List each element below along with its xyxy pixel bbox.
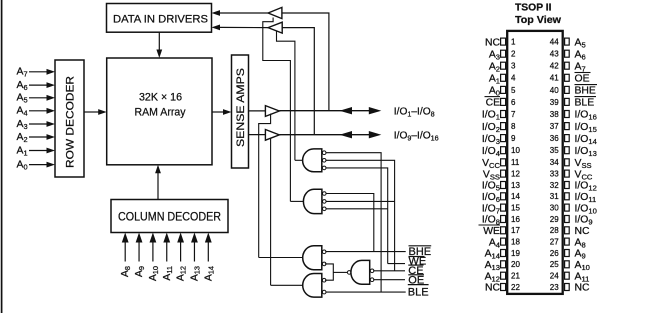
pin 32 I/O12	[550, 181, 597, 193]
svg-text:34: 34	[550, 158, 559, 167]
svg-text:I/O15: I/O15	[575, 122, 597, 134]
svg-text:10: 10	[511, 146, 520, 155]
wire U5 output bracket	[333, 271, 347, 273]
wire DATA IN DRIVERS to RAM array	[158, 32, 160, 51]
svg-text:I/O4: I/O4	[482, 146, 500, 158]
svg-text:I/O14: I/O14	[575, 134, 597, 146]
svg-text:20: 20	[511, 260, 520, 269]
wire U2 input WE	[326, 208, 388, 210]
pin 39 BLE	[550, 97, 596, 109]
svg-text:A0: A0	[17, 160, 28, 172]
svg-text:COLUMN DECODER: COLUMN DECODER	[118, 212, 221, 224]
pin 2 A3	[489, 49, 516, 61]
svg-text:VCC: VCC	[575, 169, 593, 181]
svg-text:22: 22	[511, 283, 520, 292]
svg-text:39: 39	[550, 98, 559, 107]
pin 9 I/O3	[482, 134, 516, 146]
svg-text:TSOP II: TSOP II	[515, 3, 552, 14]
svg-text:WE: WE	[483, 226, 500, 237]
pin 15 I/O7	[482, 203, 521, 215]
node A10 input	[148, 266, 160, 281]
wire output buffer upper enable	[259, 114, 271, 258]
svg-text:A4: A4	[489, 237, 500, 249]
pin 10 I/O4	[482, 146, 521, 158]
node A12 input	[176, 266, 188, 281]
wire buffer to DATA IN DRIVERS lower	[220, 26, 268, 28]
pin 29 I/O9	[550, 215, 593, 227]
pin 16 I/O8	[482, 215, 521, 227]
wire U2 input BHE	[326, 194, 374, 252]
svg-text:29: 29	[550, 215, 559, 224]
pin 24 A11	[550, 271, 590, 283]
pin 18 A4	[489, 237, 521, 249]
svg-text:43: 43	[550, 50, 559, 59]
pin 7 I/O1	[482, 110, 516, 122]
svg-text:1: 1	[511, 38, 516, 47]
pin 38 I/O16	[550, 110, 597, 122]
svg-text:36: 36	[550, 134, 559, 143]
pin 35 I/O13	[550, 146, 597, 158]
block SENSE AMPS box	[232, 55, 249, 168]
svg-text:I/O1–I/O8: I/O1–I/O8	[394, 106, 435, 118]
svg-text:I/O9–I/O16: I/O9–I/O16	[394, 130, 439, 142]
gate output-enable byte-low U4	[303, 274, 322, 298]
wire output buffer lower enable	[270, 138, 272, 285]
wire U1 input CE	[325, 160, 394, 270]
svg-text:21: 21	[511, 272, 520, 281]
svg-text:CE: CE	[486, 98, 501, 109]
wire SENSE AMPS to output buffer upper	[249, 110, 266, 112]
wire U1 input BLE	[325, 153, 381, 292]
block ROW DECODER box	[55, 60, 84, 177]
svg-text:7: 7	[511, 110, 516, 119]
svg-text:18: 18	[511, 238, 520, 247]
svg-text:23: 23	[550, 283, 559, 292]
pin 25 A10	[550, 260, 590, 272]
node A8 input	[120, 266, 132, 277]
wire U4 output	[271, 284, 303, 286]
svg-text:I/O3: I/O3	[482, 134, 500, 146]
svg-text:A13: A13	[189, 266, 201, 281]
svg-text:28: 28	[550, 226, 559, 235]
svg-text:Top View: Top View	[515, 15, 562, 26]
svg-text:A2: A2	[17, 132, 28, 144]
wire RAM array to SENSE AMPS	[212, 111, 225, 113]
svg-text:38: 38	[550, 110, 559, 119]
svg-text:26: 26	[550, 249, 559, 258]
wire ROW DECODER to RAM array	[84, 111, 99, 113]
svg-text:A14: A14	[485, 249, 500, 261]
svg-text:I/O13: I/O13	[575, 146, 597, 158]
buffer output upper	[265, 106, 279, 117]
svg-text:A12: A12	[176, 266, 188, 281]
pin 37 I/O15	[550, 122, 597, 134]
svg-text:I/O1: I/O1	[482, 110, 500, 122]
gate read-enable U5	[351, 260, 370, 284]
wire U1 input WE	[325, 168, 387, 264]
svg-text:32K × 16: 32K × 16	[139, 91, 182, 103]
svg-text:DATA IN DRIVERS: DATA IN DRIVERS	[113, 13, 208, 25]
node A14 input	[203, 266, 215, 281]
pin 34 VSS	[550, 158, 592, 170]
svg-text:4: 4	[511, 74, 516, 83]
svg-text:A0: A0	[489, 86, 500, 98]
wire U1 output	[295, 159, 303, 161]
pin 13 I/O5	[482, 181, 521, 193]
svg-text:BLE: BLE	[575, 98, 595, 109]
pin 4 A1	[489, 74, 516, 86]
svg-text:A5: A5	[575, 37, 586, 49]
svg-text:40: 40	[550, 86, 559, 95]
svg-text:A3: A3	[489, 49, 500, 61]
pin 36 I/O14	[550, 134, 597, 146]
svg-text:41: 41	[550, 74, 559, 83]
svg-text:A6: A6	[575, 49, 586, 61]
pin 44 A5	[550, 37, 586, 49]
wire BLE	[325, 291, 405, 293]
svg-text:BLE: BLE	[408, 286, 429, 298]
svg-text:17: 17	[511, 226, 520, 235]
wire U3 output	[259, 257, 303, 259]
pin 6 CE	[485, 97, 517, 109]
svg-text:I/O10: I/O10	[575, 203, 597, 215]
svg-text:9: 9	[511, 134, 516, 143]
pin 12 VSS	[483, 169, 521, 181]
svg-text:33: 33	[550, 170, 559, 179]
svg-text:37: 37	[550, 122, 559, 131]
pin 40 BHE	[550, 85, 597, 97]
node A13 input	[189, 266, 201, 281]
block DATA IN DRIVERS box	[107, 4, 212, 33]
pin 30 I/O10	[550, 203, 597, 215]
pin 31 I/O11	[550, 192, 596, 204]
svg-text:I/O16: I/O16	[575, 110, 597, 122]
svg-text:13: 13	[511, 181, 520, 190]
block RAM array box	[107, 58, 212, 165]
wire SENSE AMPS to output buffer lower	[249, 134, 266, 136]
svg-text:ROW DECODER: ROW DECODER	[64, 76, 76, 168]
svg-text:6: 6	[511, 98, 516, 107]
pin 11 VCC	[482, 158, 520, 170]
wire COLUMN DECODER to RAM array	[157, 172, 159, 200]
svg-text:I/O12: I/O12	[575, 181, 597, 193]
svg-text:I/O5: I/O5	[482, 181, 500, 193]
svg-text:24: 24	[550, 272, 559, 281]
pin 20 A13	[485, 260, 521, 272]
pin 1 NC	[485, 37, 516, 48]
wire OE	[373, 279, 405, 281]
pin 19 A14	[485, 249, 521, 261]
svg-text:A9: A9	[134, 266, 146, 277]
svg-text:8: 8	[511, 122, 516, 131]
svg-text:A10: A10	[148, 266, 160, 281]
svg-text:25: 25	[550, 260, 559, 269]
svg-text:A5: A5	[17, 93, 28, 105]
pin 28 NC	[550, 226, 590, 237]
svg-text:A2: A2	[489, 61, 500, 73]
svg-text:14: 14	[511, 192, 520, 201]
wire BHE	[325, 251, 405, 253]
svg-text:I/O7: I/O7	[482, 203, 500, 215]
wire WE	[388, 263, 405, 265]
svg-text:35: 35	[550, 146, 559, 155]
svg-text:A9: A9	[575, 249, 586, 261]
svg-text:32: 32	[550, 181, 559, 190]
wire buffer to DATA IN DRIVERS upper	[220, 12, 268, 14]
svg-text:A4: A4	[17, 106, 28, 118]
wire data-in lower input	[282, 28, 314, 135]
pin 27 A8	[550, 237, 586, 249]
svg-text:15: 15	[511, 204, 520, 213]
svg-text:A12: A12	[485, 271, 500, 283]
svg-text:12: 12	[511, 170, 520, 179]
svg-text:19: 19	[511, 249, 520, 258]
buffer data-in upper	[268, 7, 282, 18]
svg-text:16: 16	[511, 215, 520, 224]
gate output-enable byte-high U3	[303, 246, 322, 270]
pin 5 A0	[489, 86, 516, 98]
pin 17 WE	[479, 225, 521, 237]
pin 42 A7	[550, 61, 586, 73]
pin 21 A12	[485, 271, 521, 283]
pin 14 I/O6	[482, 192, 521, 204]
svg-text:A7: A7	[17, 67, 28, 79]
svg-text:BHE: BHE	[575, 86, 596, 97]
wire I/O9-I/O16 line	[279, 134, 372, 136]
svg-text:I/O2: I/O2	[482, 122, 500, 134]
svg-text:NC: NC	[485, 37, 501, 48]
svg-text:30: 30	[550, 204, 559, 213]
svg-text:A1: A1	[17, 145, 28, 157]
pin 3 A2	[489, 61, 516, 73]
svg-text:I/O9: I/O9	[575, 215, 593, 227]
svg-text:5: 5	[511, 86, 516, 95]
svg-text:A8: A8	[120, 266, 132, 277]
svg-text:VSS: VSS	[483, 169, 500, 181]
buffer data-in lower	[268, 22, 282, 33]
svg-text:A3: A3	[17, 119, 28, 131]
TSOP package outline	[507, 31, 563, 294]
pin 8 I/O2	[482, 122, 516, 134]
wire data-in upper enable	[263, 18, 291, 202]
wire I/O1-I/O8 line	[279, 110, 372, 112]
wire data-in lower enable	[277, 31, 295, 161]
buffer output lower	[265, 130, 279, 141]
svg-text:A14: A14	[203, 266, 215, 281]
svg-text:A11: A11	[575, 271, 590, 283]
svg-text:A7: A7	[575, 61, 586, 73]
wire CE	[373, 270, 405, 272]
wire U2 input CE	[326, 200, 395, 202]
pin 23 NC	[550, 283, 590, 294]
node A11 input	[162, 266, 174, 281]
pin 33 VCC	[550, 169, 593, 181]
svg-text:RAM Array: RAM Array	[135, 107, 186, 119]
svg-text:A11: A11	[162, 266, 174, 281]
svg-text:42: 42	[550, 62, 559, 71]
wire data-in upper input	[282, 13, 329, 111]
svg-text:A8: A8	[575, 237, 586, 249]
pin 43 A6	[550, 49, 586, 61]
svg-text:3: 3	[511, 62, 516, 71]
svg-text:2: 2	[511, 50, 516, 59]
svg-text:NC: NC	[575, 283, 591, 294]
wire U2 output	[290, 200, 303, 202]
pin 22 NC	[485, 283, 520, 294]
svg-text:NC: NC	[575, 226, 591, 237]
block COLUMN DECODER box	[111, 200, 228, 233]
svg-text:27: 27	[550, 238, 559, 247]
svg-text:NC: NC	[485, 283, 501, 294]
svg-text:OE: OE	[575, 74, 590, 85]
svg-text:A6: A6	[17, 80, 28, 92]
svg-text:31: 31	[550, 192, 559, 201]
svg-text:SENSE AMPS: SENSE AMPS	[235, 68, 247, 147]
svg-text:11: 11	[511, 158, 520, 167]
wire left page border	[1, 0, 3, 313]
pin 26 A9	[550, 249, 586, 261]
svg-text:44: 44	[550, 38, 559, 47]
gate write-enable byte-low U1	[303, 149, 322, 172]
node A9 input	[134, 266, 146, 277]
gate write-enable byte-high U2	[303, 189, 321, 213]
pin 41 OE	[550, 73, 591, 85]
